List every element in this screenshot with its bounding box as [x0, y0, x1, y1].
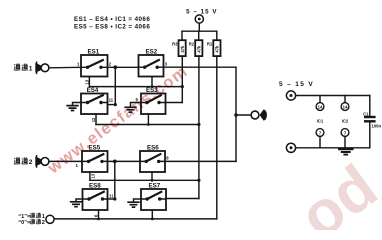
wire node B column from R2 [198, 56, 200, 198]
svg-text:47k: 47k [197, 45, 202, 53]
watermark bottom right [288, 152, 382, 240]
wire ES4 control pin 12 [95, 114, 97, 125]
svg-text:14: 14 [343, 104, 348, 109]
svg-text:“1”=: “1”= [18, 214, 31, 220]
wire output column [235, 67, 237, 161]
IC2 pin 14 [341, 96, 349, 111]
connector jack channel 2 [35, 156, 49, 167]
wire stub R3 [181, 31, 183, 40]
wire ES6 out to output column [165, 160, 236, 162]
wire ES7 out to node B [166, 198, 199, 200]
svg-text:11: 11 [109, 194, 114, 199]
wire stub R2 [198, 31, 200, 40]
resistor R1 [207, 40, 221, 56]
channel 2 input label [14, 157, 33, 166]
wire stub R1 [216, 31, 218, 40]
resistor R2 [189, 40, 203, 56]
svg-text:R3: R3 [172, 42, 178, 47]
wire right top rail [296, 95, 370, 97]
wire ES8 control [98, 210, 100, 219]
right supply terminal plus [286, 91, 295, 100]
svg-text:7: 7 [319, 130, 322, 135]
watermark center [44, 62, 192, 178]
supply terminal top [195, 15, 203, 23]
wire ES2 control [151, 77, 153, 87]
switch ES3 [141, 87, 166, 114]
node mid ch2 tee [114, 161, 116, 199]
wire ch1 input [49, 66, 81, 69]
wire select bus bottom [54, 218, 217, 220]
wire select column from R1 [216, 56, 218, 219]
wire ES1 control pin 13 [88, 77, 90, 87]
switch ES7 [141, 183, 166, 210]
channel 1 input label [14, 64, 33, 73]
svg-text:13: 13 [91, 173, 96, 178]
wire ES3 control [147, 114, 149, 125]
junction bus to R2 column [197, 179, 200, 182]
svg-text:2: 2 [29, 159, 33, 166]
svg-text:100n: 100n [372, 124, 382, 129]
svg-text:6: 6 [93, 214, 98, 217]
wire ES5 to ES6 [108, 160, 141, 162]
right ground terminal [286, 143, 295, 152]
svg-text:od: od [288, 152, 382, 230]
resistor R3 [172, 40, 186, 56]
wire ES8 out to mid node [108, 198, 115, 200]
svg-text:1: 1 [77, 61, 80, 66]
svg-text:2: 2 [109, 61, 112, 66]
wire to output jack [236, 114, 251, 116]
wire supply bus [182, 30, 217, 32]
svg-text:R2: R2 [189, 42, 195, 47]
switch ES4 [81, 87, 108, 114]
switch ES1 [81, 49, 108, 77]
switch ES2 [139, 49, 164, 77]
svg-text:IC1: IC1 [317, 119, 324, 124]
switch ES5 [82, 145, 108, 172]
svg-text:13: 13 [84, 79, 89, 84]
svg-text:7: 7 [344, 130, 347, 135]
select input labels [18, 213, 45, 220]
wire ES4 out to mid node [108, 104, 116, 106]
svg-text:“0”=: “0”= [18, 220, 31, 226]
svg-text:1: 1 [76, 163, 79, 168]
wire ch2 input [49, 160, 82, 162]
svg-text:5 – 15 V: 5 – 15 V [186, 8, 217, 15]
wire ES1 to ES2 [108, 66, 139, 68]
ground at ES3 input [124, 103, 141, 113]
svg-text:1: 1 [42, 214, 45, 220]
wire node B bus [96, 124, 199, 126]
IC1 pin 14 [316, 96, 324, 111]
svg-text:IC2: IC2 [342, 119, 349, 124]
select input terminal [46, 215, 54, 223]
svg-text:ES1 – ES4 • IC1 = 4066: ES1 – ES4 • IC1 = 4066 [74, 16, 150, 23]
capacitor C1 [363, 96, 381, 148]
ground on right bottom rail [338, 149, 354, 154]
svg-text:ES5 – ES8 • IC2 = 4066: ES5 – ES8 • IC2 = 4066 [74, 23, 150, 30]
node mid ch1 tee [114, 67, 116, 104]
node A column from R3 [181, 56, 183, 102]
wire ES6 control [151, 172, 153, 180]
svg-text:www.elecfans.com: www.elecfans.com [44, 62, 192, 178]
wire ES3 out to node A [166, 102, 183, 104]
wire ES7 control [151, 210, 153, 219]
IC1 pin 7 [316, 129, 324, 148]
svg-text:2: 2 [42, 220, 45, 226]
node B junction dot [197, 123, 200, 126]
svg-text:11: 11 [109, 98, 114, 103]
svg-text:12: 12 [91, 117, 96, 122]
connector jack channel 1 [35, 62, 49, 73]
svg-text:47k: 47k [215, 45, 220, 53]
wire ES5 ES6 control bus [90, 179, 199, 181]
wire ES2 out to output column [164, 66, 237, 68]
node A junction dot [181, 85, 184, 88]
svg-text:14: 14 [318, 104, 323, 109]
output jack [251, 109, 267, 120]
wire A bus to switch controls [89, 86, 182, 88]
wire ES5 control [89, 172, 91, 180]
ground at ES4 input [66, 103, 81, 111]
svg-text:C1: C1 [363, 112, 369, 117]
wire right bottom rail [296, 147, 370, 149]
ground at ES7 input [127, 199, 141, 207]
svg-text:5 – 15 V: 5 – 15 V [279, 81, 314, 88]
switch ES8 [83, 183, 108, 210]
svg-text:47k: 47k [180, 45, 185, 53]
svg-text:3: 3 [165, 61, 168, 66]
wire terminal stem [198, 23, 200, 31]
IC2 pin 7 [341, 129, 349, 148]
svg-text:8: 8 [166, 156, 169, 161]
switch ES6 [140, 145, 165, 172]
output junction dot [234, 113, 238, 117]
svg-text:1: 1 [29, 65, 33, 72]
svg-text:R1: R1 [207, 42, 213, 47]
ground at ES8 input [70, 199, 83, 207]
